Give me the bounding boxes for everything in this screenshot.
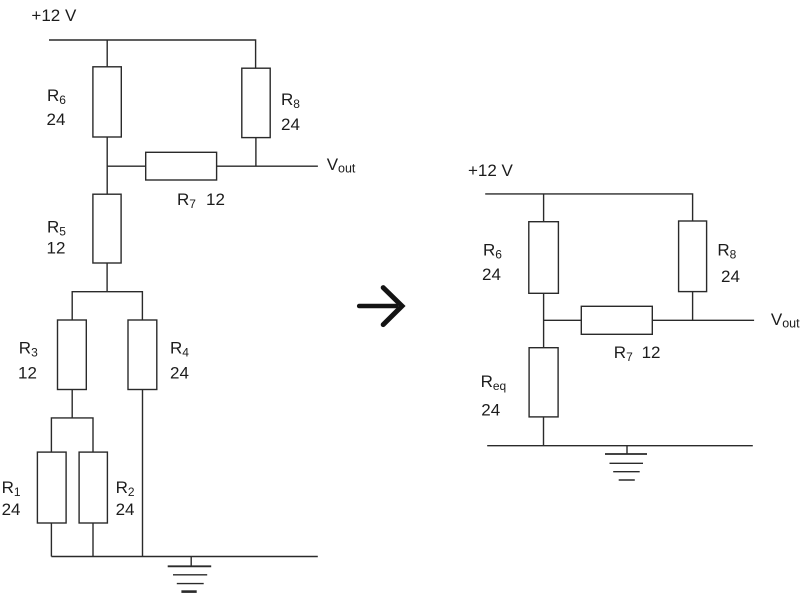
svg-text:12: 12 <box>642 343 661 362</box>
svg-text:24: 24 <box>281 115 300 134</box>
svg-text:+12 V: +12 V <box>31 6 77 25</box>
svg-text:24: 24 <box>170 364 189 383</box>
svg-text:24: 24 <box>721 267 740 286</box>
svg-text:+12 V: +12 V <box>468 161 514 180</box>
svg-text:24: 24 <box>116 500 135 519</box>
svg-text:24: 24 <box>2 500 21 519</box>
svg-text:12: 12 <box>47 238 66 257</box>
svg-text:24: 24 <box>47 110 66 129</box>
svg-text:24: 24 <box>481 401 500 420</box>
svg-text:24: 24 <box>482 265 501 284</box>
svg-text:12: 12 <box>18 364 37 383</box>
svg-text:12: 12 <box>206 190 225 209</box>
